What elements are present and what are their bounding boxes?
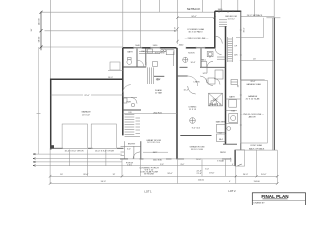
rear wall right segment [222, 158, 231, 160]
house left wall (garage right wall) [122, 48, 124, 136]
svg-text:BA 2: BA 2 [219, 138, 223, 141]
svg-text:36' X 34' PATIO: 36' X 34' PATIO [188, 30, 203, 33]
svg-text:LINEN: LINEN [194, 82, 200, 84]
ticks on bottom tier3 [49, 182, 52, 185]
vertical dim connector x=140.5 [140, 159, 142, 176]
svg-text:GARAGE: GARAGE [248, 95, 258, 98]
svg-text:DW: DW [142, 51, 145, 53]
kitchen counter inner line [139, 53, 160, 55]
svg-text:58.00: 58.00 [39, 36, 41, 42]
svg-text:PATIO: PATIO [220, 151, 226, 154]
bedroom closet shelves [219, 19, 227, 21]
svg-text:CONC SLAB: CONC SLAB [250, 144, 262, 147]
svg-text:16'-0" X 8'-0" OH DR: 16'-0" X 8'-0" OH DR [65, 151, 84, 153]
right unit garage outline [241, 80, 267, 143]
svg-text:HALL: HALL [201, 58, 207, 61]
furnace platform in garage [110, 62, 120, 70]
door arc at dining top [206, 79, 213, 86]
stair bottom cap [125, 136, 140, 138]
svg-text:ABOVE: ABOVE [249, 116, 257, 119]
svg-text:16'-0": 16'-0" [108, 77, 113, 79]
cross line at top right [266, 17, 280, 19]
svg-text:26'-0": 26'-0" [83, 174, 89, 176]
kitchen counter lower [154, 75, 164, 77]
svg-text:GARAGE SLAB: GARAGE SLAB [246, 83, 261, 86]
svg-text:50'-0": 50'-0" [101, 181, 107, 183]
lot vertical line at x=50.7 above garage [50, 0, 52, 79]
vertical dim connector x=122 [121, 159, 123, 176]
master bath divider walls [226, 98, 241, 100]
lot vertical at x=202.5 [202, 0, 204, 12]
right unit inner line [263, 18, 265, 38]
hall closet lines [217, 56, 226, 58]
svg-text:DRAWN BY:: DRAWN BY: [254, 201, 266, 204]
laundry door arc [200, 76, 207, 83]
left arrows on garage dim lines [33, 153, 36, 155]
garage lower dim line 1 [33, 153, 122, 155]
svg-text:5040 SGD: 5040 SGD [153, 159, 163, 161]
bath door arc [137, 60, 144, 67]
vertical dim connector x=256.6 [256, 150, 258, 176]
2nd floor line across great room [123, 113, 177, 115]
vertical dim connector x=235.8 [235, 166, 237, 183]
ticks on patio dim [176, 16, 179, 19]
tick marks on left dimension line [40, 11, 43, 14]
ticks right dim lines [235, 175, 237, 177]
garage door panel rectangle 1 [62, 124, 87, 148]
hall wall [200, 48, 202, 67]
vertical dim connector x=225.5 [225, 159, 227, 176]
middle lot line [45, 30, 179, 32]
house top wall segment 3 [160, 47, 177, 49]
entry extra ticks [121, 151, 125, 153]
west lot boundary vertical x=38.5 [38, 47, 40, 154]
stair side rail [136, 117, 141, 119]
ticks on bottom tier2 [49, 175, 52, 178]
svg-text:114.00: 114.00 [253, 181, 260, 183]
pdr fixtures [131, 103, 135, 107]
hall door arc 1 [207, 61, 213, 67]
svg-text:19'-6": 19'-6" [209, 173, 214, 175]
lot vertical at x=122.8 above house [122, 0, 124, 48]
house top wall segment 4 [186, 47, 196, 49]
lower lot line meeting house front wall [41, 46, 123, 48]
street / property double line light companion [271, 18, 273, 150]
bath wall below kitchen [145, 49, 147, 66]
garage bottom left dark block [50, 145, 54, 148]
entry door arc [123, 85, 131, 93]
title block frame [252, 193, 305, 207]
svg-text:FINAL PLAN: FINAL PLAN [261, 194, 289, 199]
svg-text:11 X 13: 11 X 13 [189, 109, 197, 111]
kitchen lower counter [145, 62, 147, 67]
patio top dimension line [178, 17, 215, 19]
kitchen sink circles [161, 49, 163, 51]
vertical dim connector x=50 [49, 148, 51, 183]
wall above patio [223, 143, 237, 145]
patio left dimension line [177, 11, 179, 44]
interior thick wall right of hall [225, 26, 227, 144]
svg-text:18'-0": 18'-0" [167, 173, 173, 175]
small dark cluster box near bath2 [231, 80, 238, 85]
long dim line y=165.5 [33, 165, 236, 167]
thin window band across top wall openings [134, 47, 143, 49]
right unit dim line at y=60.5 [240, 60, 274, 62]
line above right stoop y=150 [236, 149, 277, 151]
vertical dim connector x=87.7 [87, 150, 89, 177]
svg-text:W/ 10' CLGS: W/ 10' CLGS [191, 149, 204, 151]
porch dim micro line [143, 151, 168, 153]
bedroom wing top wall [215, 10, 241, 12]
svg-text:MASTER: MASTER [216, 121, 226, 124]
vertical dim connector x=177.5 bottom [177, 159, 179, 183]
bottom dim line tier2 [50, 175, 277, 177]
nook table circle [183, 57, 188, 62]
svg-text:SETBACK: SETBACK [187, 7, 201, 11]
svg-text:20'-0": 20'-0" [251, 81, 256, 83]
right unit dim line at y=79.8 [241, 79, 265, 81]
lot vertical at x=159.5 [159, 0, 161, 12]
right setback line from bedroom corner to street line [241, 15, 275, 17]
pdr door arc [131, 98, 137, 104]
pdr bottom wall [123, 109, 141, 111]
svg-text:LOT 2: LOT 2 [228, 189, 236, 193]
svg-text:6 X 6: 6 X 6 [127, 165, 132, 167]
hall small marks [217, 124, 226, 132]
svg-text:114.00: 114.00 [198, 180, 205, 182]
svg-text:6' SLAB: 6' SLAB [217, 159, 224, 162]
pantry box [166, 50, 174, 55]
shower box [229, 100, 237, 108]
svg-text:11 X 12: 11 X 12 [228, 19, 236, 21]
svg-text:140.00: 140.00 [39, 18, 41, 25]
garage interior dimension line [51, 94, 83, 96]
right unit stair rails [227, 37, 229, 62]
title underline [263, 198, 288, 200]
garage bottom wall with door openings: end posts [50, 147, 63, 149]
title block divider [252, 200, 305, 202]
svg-text:16'-0" X 8'-0" OH DR: 16'-0" X 8'-0" OH DR [95, 151, 114, 153]
kitchen counter along spine [173, 52, 175, 67]
svg-text:2ND FLR: 2ND FLR [153, 112, 162, 114]
svg-text:34'-0": 34'-0" [191, 16, 197, 18]
svg-text:9'-0" CLG: 9'-0" CLG [192, 127, 201, 129]
svg-text:10'-2": 10'-2" [184, 90, 189, 92]
kitchen stair treads vertical run [147, 67, 149, 84]
house top wall segment 2 [142, 47, 151, 49]
right unit wall window ticks [240, 29, 242, 31]
svg-text:— 2ND FLOOR LINE —: — 2ND FLOOR LINE — [185, 38, 209, 40]
svg-text:PDR: PDR [127, 101, 132, 103]
svg-text:24'-0": 24'-0" [243, 174, 249, 176]
svg-text:BATH: BATH [127, 51, 133, 54]
right unit top faint line [236, 36, 264, 38]
lot vertical at x=237.8 [237, 0, 239, 11]
svg-text:10'-6": 10'-6" [191, 62, 196, 64]
kitchen counter along top wall [139, 51, 166, 53]
svg-text:20' X 24' SLAB: 20' X 24' SLAB [246, 98, 260, 101]
left dimension vertical at x=36 [40, 12, 42, 51]
porch post 2 [166, 158, 172, 160]
svg-text:24'-0" SETBACK: 24'-0" SETBACK [247, 14, 263, 17]
house front(top) wall segment 1 [123, 47, 134, 49]
kitchen range box [148, 49, 153, 53]
front setback line (upper horizontal lot line) [41, 11, 215, 13]
bottom dim line tier3 [50, 183, 277, 185]
toilet master bath [227, 127, 231, 131]
door arc near master entry [214, 79, 220, 85]
bedroom wing window ticks [221, 10, 223, 12]
svg-text:24'-0": 24'-0" [261, 174, 267, 176]
house top wall segment 5 [205, 47, 215, 49]
laundry boxes [201, 62, 207, 68]
master door arc [188, 86, 196, 94]
dining ceiling fan [190, 118, 196, 124]
patio stoop outline [235, 150, 244, 166]
svg-text:BATH: BATH [229, 96, 235, 99]
hanger marks in master closet [210, 103, 220, 106]
garage door panel rectangle 2 [91, 124, 116, 148]
svg-text:34'0": 34'0" [153, 152, 158, 154]
wall right of bath [136, 49, 138, 68]
pdr sink counter [123, 97, 137, 99]
svg-text:20' X 22': 20' X 22' [82, 114, 90, 116]
svg-text:16'-0": 16'-0" [196, 159, 201, 161]
master closet/bath divider [180, 135, 211, 137]
svg-text:LOT 1: LOT 1 [144, 190, 152, 194]
svg-text:21'-6": 21'-6" [196, 173, 201, 175]
svg-text:GARAGE: GARAGE [81, 111, 91, 114]
bedroom wing left wall [214, 11, 216, 48]
wardrobe small box [211, 101, 216, 105]
vertical dim connector x=105.9 [105, 150, 107, 167]
svg-text:ENTRY: ENTRY [128, 144, 136, 146]
street / property double line dark [273, 18, 275, 150]
porch post 3 [178, 158, 184, 160]
vertical dim connector x=69.5 [69, 150, 71, 167]
bedroom window sill marks [218, 11, 220, 13]
garage left wall [50, 79, 52, 150]
entry side wall [140, 141, 142, 159]
svg-text:42" BAR: 42" BAR [155, 92, 163, 95]
nook/great room divider [177, 75, 188, 77]
hall small wall jog [206, 67, 208, 73]
garage lower dim line 2 [33, 158, 120, 160]
svg-text:W/ HOUSE: W/ HOUSE [144, 173, 155, 175]
toilet in bath [127, 60, 132, 65]
hall door arc 2 [215, 48, 222, 55]
garage door header thin lines [63, 147, 88, 149]
lot vertical at x=221.2 [220, 0, 222, 11]
svg-text:5'-0": 5'-0" [219, 133, 223, 135]
bath bottom wall [123, 66, 146, 68]
tick near stoop [238, 164, 242, 166]
svg-text:8'-0": 8'-0" [181, 164, 185, 166]
kitchen island box [153, 62, 158, 67]
tub with circle [229, 114, 238, 123]
water heater box with circle [207, 52, 213, 57]
garage man-door line [108, 69, 123, 71]
hall bottom wall [200, 66, 226, 68]
window ticks on front wall openings [133, 47, 135, 49]
svg-text:6'-0": 6'-0" [127, 149, 131, 151]
svg-text:W.I.C.: W.I.C. [213, 99, 219, 101]
svg-text:3'-0": 3'-0" [160, 164, 164, 166]
svg-text:KITCHEN: KITCHEN [155, 52, 165, 54]
patio stoop left wall (lower right) [234, 150, 236, 166]
svg-text:36'-0": 36'-0" [244, 27, 246, 32]
master closet box [209, 93, 223, 106]
svg-text:26'-8": 26'-8" [175, 27, 177, 32]
bedroom door arc [215, 36, 223, 44]
lot vertical at x=177.5 upper part [177, 0, 179, 11]
house rear(bottom) wall left segment [120, 158, 128, 160]
vertical dim connector x=202 [201, 159, 203, 176]
vertical dim connector x=277.3 [276, 150, 278, 183]
nook wall arc doorway [188, 76, 198, 86]
porch post 1 [140, 158, 144, 160]
svg-text:NOOK: NOOK [188, 53, 195, 55]
garage lower dim line 3 [33, 161, 122, 163]
svg-text:22'-0": 22'-0" [84, 95, 89, 97]
svg-text:6'-0": 6'-0" [205, 168, 209, 170]
svg-text:BACK OF WALK: BACK OF WALK [249, 148, 265, 151]
entry micro dim cluster [123, 141, 125, 159]
garage top wall [50, 78, 124, 80]
right unit stair treads [228, 38, 233, 40]
svg-text:16' X 20' CLG: 16' X 20' CLG [147, 142, 160, 144]
lot vertical at x=140.5 [140, 0, 142, 48]
stair treads lower (entry stair) [125, 114, 135, 116]
svg-text:GREAT ROOM: GREAT ROOM [190, 146, 205, 149]
svg-text:8'-0": 8'-0" [231, 157, 233, 161]
porch front edge line [128, 158, 231, 160]
entry door swing [133, 152, 140, 159]
street line upper thin part at x=274.2 [273, 0, 275, 18]
bedroom wing right wall [240, 11, 242, 150]
tick on west boundary [37, 113, 41, 115]
lot vertical at x=254.7 [254, 0, 256, 16]
central spine wall [176, 48, 178, 160]
